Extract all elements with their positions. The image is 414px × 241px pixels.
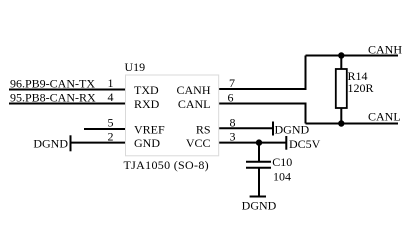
svg-text:104: 104 (273, 169, 291, 183)
resistor R14 (336, 69, 347, 108)
wire pin 4 (95.PB8-CAN-RX) (9, 103, 126, 105)
power port DC5V bar (285, 136, 287, 150)
wire VCC junction down to C10 (258, 143, 260, 161)
power port DGND left bar (70, 135, 72, 151)
junction VCC / C10 (256, 139, 262, 145)
IC U19 body (126, 75, 219, 156)
wire pin 6 to CANL (219, 104, 306, 124)
svg-text:VCC: VCC (186, 136, 211, 150)
svg-text:8: 8 (230, 115, 236, 129)
svg-text:U19: U19 (125, 60, 146, 74)
wire pin 8 to DGND (219, 127, 273, 129)
wire C10 to ground (258, 168, 260, 196)
svg-text:GND: GND (134, 136, 160, 150)
svg-text:1: 1 (108, 76, 114, 90)
svg-text:7: 7 (229, 76, 235, 90)
svg-text:96.PB9-CAN-TX: 96.PB9-CAN-TX (10, 77, 95, 91)
svg-text:DGND: DGND (275, 123, 310, 137)
svg-text:4: 4 (108, 90, 114, 104)
wire pin 3 to DC5V (219, 142, 287, 144)
svg-text:C10: C10 (272, 155, 292, 169)
junction CANH / R14 (338, 52, 344, 58)
wire net CANL (306, 123, 399, 125)
svg-text:RXD: RXD (134, 97, 160, 111)
svg-text:TJA1050 (SO-8): TJA1050 (SO-8) (124, 158, 209, 172)
wire pin 1 (96.PB9-CAN-TX) (9, 89, 126, 91)
svg-text:CANL: CANL (178, 97, 211, 111)
wire pin 5 (84, 128, 126, 130)
svg-text:CANL: CANL (368, 109, 401, 123)
wire net CANH (306, 55, 399, 57)
junction CANL / R14 (338, 120, 344, 126)
svg-text:2: 2 (108, 129, 114, 143)
wire R14 bottom (340, 108, 342, 124)
svg-text:CANH: CANH (368, 42, 402, 56)
svg-text:6: 6 (228, 90, 234, 104)
svg-text:CANH: CANH (176, 83, 210, 97)
svg-text:DGND: DGND (33, 136, 68, 150)
power port DGND pin8 bar (272, 122, 274, 136)
svg-text:TXD: TXD (134, 83, 159, 97)
svg-text:95.PB8-CAN-RX: 95.PB8-CAN-RX (10, 91, 96, 105)
svg-text:3: 3 (230, 130, 236, 144)
wire pin 2 from DGND (70, 142, 126, 144)
svg-text:DC5V: DC5V (289, 137, 321, 151)
svg-text:VREF: VREF (134, 122, 165, 136)
svg-text:120R: 120R (348, 81, 374, 95)
wire pin 7 to CANH (219, 56, 306, 90)
capacitor C10 bottom plate (246, 167, 271, 169)
capacitor C10 top plate (246, 161, 271, 163)
wire R14 top (340, 56, 342, 70)
svg-text:DGND: DGND (242, 198, 277, 212)
ground bar bottom DGND (250, 196, 266, 198)
svg-text:RS: RS (196, 122, 211, 136)
svg-text:5: 5 (108, 116, 114, 130)
